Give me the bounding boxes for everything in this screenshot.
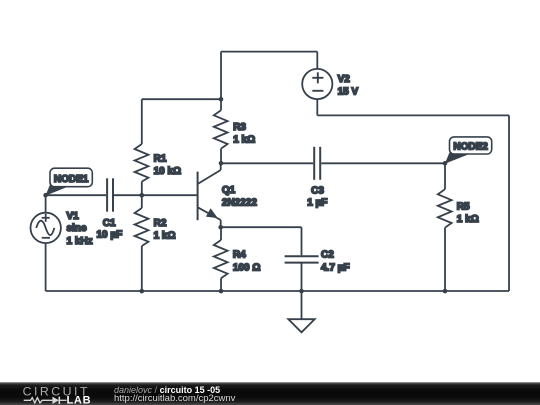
junction node NODE2 (443, 161, 448, 166)
svg-text:sine: sine (67, 223, 87, 234)
label R5 1 kOhm (457, 202, 479, 225)
voltage source V2 (302, 69, 332, 99)
resistor R2 (135, 195, 149, 291)
resistor R5 (438, 163, 452, 291)
Q1 collector lead (220, 163, 222, 170)
wire NODE1 to C1 (46, 194, 107, 196)
svg-text:1 kΩ: 1 kΩ (233, 135, 255, 146)
wire top rail to V2 (316, 52, 318, 69)
svg-text:R3: R3 (233, 122, 246, 133)
V1 circle (31, 213, 61, 243)
wire V2 to right edge (317, 114, 509, 116)
wire C1 to base node to Q1 base (114, 194, 197, 196)
capacitor C2 (285, 227, 319, 291)
label R1 10 kOhm (154, 153, 181, 177)
junction R4 bottom rail (219, 289, 224, 294)
ground lead (301, 291, 303, 319)
wire emitter to C2 (221, 226, 302, 228)
junction R1 top / R3 top (219, 97, 224, 102)
label C1 10 uF (97, 218, 123, 241)
label R4 100 Ohm (233, 250, 260, 274)
junction C2/ground rail (299, 289, 304, 294)
svg-text:NODE2: NODE2 (453, 141, 488, 152)
V1 minus sign (42, 237, 50, 239)
svg-text:1 kHz: 1 kHz (67, 236, 93, 247)
resistor R1 (135, 99, 149, 195)
Q1 base bar (197, 172, 199, 221)
svg-text:C1: C1 (103, 218, 116, 229)
svg-text:V2: V2 (338, 74, 351, 85)
svg-text:Q1: Q1 (222, 185, 236, 196)
wire V2 bottom down (316, 99, 318, 115)
footer bar (0, 382, 540, 405)
resistor R3 (214, 99, 228, 163)
label V2 15 V (338, 74, 359, 97)
junction R5 bottom rail (443, 289, 448, 294)
junction node NODE1 at V1 top (43, 193, 48, 198)
V2 minus sign (312, 90, 323, 92)
label V1 sine 1 kHz (67, 211, 93, 247)
svg-text:1 µF: 1 µF (307, 197, 327, 208)
node NODE1 flag (45, 168, 92, 196)
svg-text:NODE1: NODE1 (54, 174, 89, 185)
label R3 1 kOhm (233, 122, 255, 146)
wire V1 bottom to rail (45, 243, 47, 291)
svg-text:C2: C2 (321, 250, 334, 261)
transistor Q1 (198, 163, 221, 227)
svg-text:100 Ω: 100 Ω (233, 262, 260, 273)
V1 plus sign (42, 217, 50, 219)
node NODE2 flag (445, 137, 492, 164)
wire collector to C3 (221, 162, 313, 164)
label C2 4.7 uF (321, 250, 350, 274)
svg-text:10 kΩ: 10 kΩ (154, 166, 181, 177)
svg-text:2N2222: 2N2222 (222, 198, 257, 209)
wire R3 node up to top rail (220, 52, 222, 100)
ground triangle (288, 319, 314, 332)
CircuitLab logo (0, 380, 110, 405)
svg-text:V1: V1 (67, 211, 80, 222)
label C3 1 uF (307, 186, 327, 209)
wire top rail (221, 51, 317, 53)
svg-text:15 V: 15 V (338, 86, 359, 97)
capacitor C3 (314, 147, 320, 180)
V1 top lead (45, 195, 47, 213)
junction emitter node (218, 225, 223, 230)
svg-text:R2: R2 (154, 218, 167, 229)
wire R1 top to R3 top node (142, 98, 221, 100)
svg-text:R1: R1 (154, 153, 167, 164)
capacitor C1 (107, 178, 113, 211)
junction collector node (219, 161, 224, 166)
svg-text:10 µF: 10 µF (97, 229, 123, 240)
svg-text:R4: R4 (233, 250, 246, 261)
wire bottom rail (46, 290, 509, 292)
V1 sine symbol (36, 221, 54, 235)
svg-text:C3: C3 (311, 186, 324, 197)
V2 circle (302, 69, 332, 99)
footer text (114, 386, 220, 395)
svg-text:1 kΩ: 1 kΩ (154, 231, 176, 242)
ground (288, 291, 314, 332)
V2 plus sign (312, 77, 323, 79)
resistor R4 (214, 227, 228, 291)
junction R2 bottom rail (140, 289, 145, 294)
wire C3 to NODE2 (321, 162, 445, 164)
label Q1 2N2222 (222, 185, 257, 209)
voltage source V1 (31, 195, 61, 243)
wire right edge down (508, 115, 510, 291)
Q1 emitter arrow (206, 208, 218, 218)
label R2 1 kOhm (154, 218, 176, 242)
svg-text:R5: R5 (457, 202, 470, 213)
svg-text:4.7 µF: 4.7 µF (321, 263, 350, 274)
svg-text:1 kΩ: 1 kΩ (457, 214, 479, 225)
junction R1/R2/C1 base node (140, 193, 145, 198)
svg-text:LAB: LAB (67, 394, 92, 405)
Q1 emitter lead (198, 207, 221, 220)
